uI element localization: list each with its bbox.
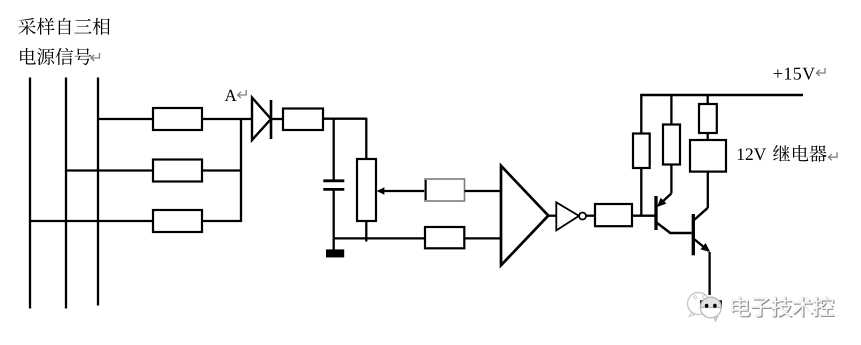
resistor R1 <box>153 108 202 130</box>
wire rail to R9 <box>670 95 672 125</box>
wire rail to R10 <box>707 95 709 105</box>
transistor Q2 emitter diagonal with arrow <box>694 239 710 252</box>
paragraph return mark after A <box>238 90 247 98</box>
wire +15V rail <box>640 94 803 96</box>
wire bottom rail <box>334 237 425 239</box>
wire top node down to capacitor C1 <box>333 119 335 181</box>
wire R4 to top node <box>323 118 366 120</box>
wire Q2 emitter down <box>708 252 710 295</box>
wire relay K1 to Q2 collector <box>707 172 709 208</box>
+15V label <box>774 68 815 80</box>
wire RP1 to bottom rail <box>365 221 367 242</box>
transistor Q1 base bar <box>654 196 657 230</box>
wire row 3 from phase 1 to R3 <box>30 220 153 222</box>
capacitor C1 <box>323 181 344 190</box>
text line 2: 电源信号 (power signal) <box>20 48 91 65</box>
resistor R3 <box>153 210 202 232</box>
wire R5 to comparator minus input <box>464 237 501 239</box>
wire row 2 from R2 to junction bus <box>202 169 242 171</box>
transistor Q2 collector diagonal <box>694 208 708 221</box>
wire U1 output to inverter <box>548 215 557 217</box>
watermark logo (WeChat bubbles) <box>688 293 723 322</box>
wire rail to R8 <box>640 95 642 134</box>
wire phase line 3 <box>97 78 99 306</box>
transistor Q2 base bar <box>692 214 695 255</box>
wire row 1 from phase 3 to R1 <box>98 118 153 120</box>
potentiometer RP1 body <box>357 159 376 221</box>
wire R10 to relay K1 <box>707 133 709 140</box>
wire capacitor C1 to bottom rail <box>333 189 335 238</box>
wire row 1 from R1 to diode anode <box>202 118 253 120</box>
inverter U2 <box>556 202 586 230</box>
resistor R9 <box>663 125 680 165</box>
resistor R7 (base) <box>595 204 632 226</box>
diode D1 <box>252 98 271 141</box>
wire phase line 2 <box>65 78 67 309</box>
wire junction bus vertical <box>240 118 242 222</box>
12V relay label (12V 继电器) <box>738 145 827 162</box>
potentiometer RP1 wiper arrow <box>377 187 425 194</box>
node A label <box>225 90 237 101</box>
wire phase line 1 <box>29 78 31 309</box>
paragraph return mark after +15V <box>817 68 826 76</box>
wire R9 down to Q1 emitter diagonal <box>670 165 672 194</box>
wire row 2 from phase 2 to R2 <box>66 169 153 171</box>
op-amp comparator U1 <box>501 166 548 265</box>
wire U2 output to R7 <box>586 215 595 217</box>
wire R8 to Q1 base node <box>640 168 642 217</box>
wire diode cathode to R4 <box>271 118 283 120</box>
resistor R6 (wiper feed, gray) <box>425 179 465 201</box>
resistor R5 (lower input) <box>425 227 464 248</box>
relay K1 box <box>690 140 726 172</box>
resistor R8 <box>633 134 650 169</box>
wire row 3 from R3 to junction bus <box>202 220 242 222</box>
paragraph return mark after 电源信号 <box>91 53 100 61</box>
resistor R4 <box>283 109 323 131</box>
wire ground stub <box>333 238 335 249</box>
watermark text 电子技术控 <box>731 296 834 317</box>
ground symbol <box>326 249 344 257</box>
transistor Q1 emitter diagonal with arrow <box>657 193 672 207</box>
wire top node down to potentiometer RP1 <box>365 118 367 159</box>
resistor R10 <box>699 104 717 133</box>
transistor Q1 collector diagonal <box>657 223 692 234</box>
paragraph return mark after 继电器 <box>829 152 838 160</box>
text line 1: 采样自三相 (sampled from three-phase) <box>19 18 110 35</box>
resistor R2 <box>153 160 202 182</box>
wire R6 to comparator plus input <box>465 190 502 192</box>
wire R7 to Q1 base <box>632 215 656 217</box>
